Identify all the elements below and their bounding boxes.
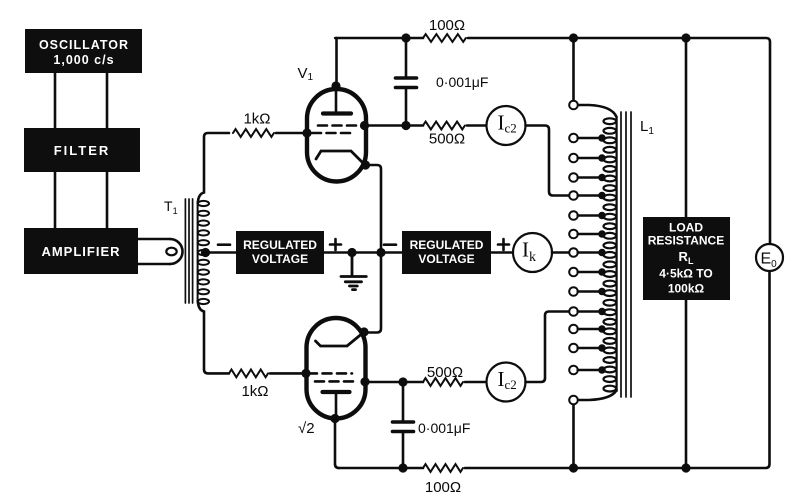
ground (341, 253, 366, 290)
svg-text:√2: √2 (298, 420, 315, 437)
resistor 1kΩ top (233, 129, 274, 137)
tube V2 cathode (316, 332, 365, 346)
tube V1 control grid dashed (312, 132, 354, 135)
capacitor 0.001uF top (396, 38, 417, 126)
tap L1 inner 9 (569, 287, 606, 296)
regulated voltage block 1 (236, 231, 324, 274)
svg-text:1kΩ: 1kΩ (243, 111, 270, 128)
transformer T1 secondary winding (198, 201, 209, 304)
resistor 1kΩ bottom (229, 370, 268, 378)
tap L1 top (to top rail) (569, 38, 616, 117)
junction screen wire / capacitor top (bottom half) (398, 377, 407, 386)
wire bottom rail (339, 271, 770, 468)
wire V1 anode up to top rail (335, 38, 338, 86)
tap L1 inner 1 (569, 134, 606, 143)
tube V1 envelope (307, 89, 366, 182)
svg-text:REGULATED: REGULATED (410, 238, 484, 252)
svg-text:FILTER: FILTER (54, 143, 111, 158)
tube V2 control grid dashed (308, 372, 352, 375)
regulated voltage block 2 (402, 231, 491, 274)
meter E0 (756, 244, 783, 271)
tube V2 screen grid dashed (315, 380, 358, 383)
wire oscillator to filter left (54, 73, 57, 128)
tap L1 inner 8 (569, 268, 606, 277)
tap L1 inner 4 (569, 191, 606, 200)
svg-text:100Ω: 100Ω (425, 479, 461, 496)
junction cathode line / mid wire (376, 248, 385, 257)
svg-text:AMPLIFIER: AMPLIFIER (41, 244, 120, 259)
svg-text:VOLTAGE: VOLTAGE (252, 252, 308, 266)
tube V2 anode (bottom plate) (323, 392, 350, 419)
junction bottom rail / L1 bottom tap (569, 463, 578, 472)
wire oscillator to filter right (106, 73, 109, 128)
wire T1 secondary bottom to 1k resistor (198, 301, 229, 373)
transformer T1 primary loop from amplifier (138, 239, 183, 264)
svg-text:T1: T1 (164, 198, 178, 216)
tube V2 envelope (307, 318, 366, 419)
capacitor 0.001uF bottom (393, 382, 414, 468)
tap L1 inner 10 (569, 307, 606, 316)
tap L1 inner 7 (569, 248, 606, 257)
junction V2 control-grid pin (301, 369, 310, 378)
junction top rail / load branch (681, 33, 690, 42)
junction V2 anode pin (330, 414, 339, 423)
wire filter to amplifier left (54, 172, 57, 228)
junction screen wire / capacitor bottom (401, 121, 410, 130)
wire top rail (335, 38, 770, 244)
tap L1 inner 13 (569, 366, 606, 375)
junction V1 cathode pin (361, 160, 370, 169)
resistor 100Ω top (423, 34, 466, 42)
junction top rail / capacitor-resistor node (401, 33, 410, 42)
wire V2 screen grid to 500 ohm resistor (365, 381, 423, 384)
meter Ik (513, 233, 552, 272)
junction V1 control-grid pin (302, 128, 311, 137)
wire 500 ohm to meter Ic2 bottom (465, 381, 487, 384)
filter block (24, 128, 140, 172)
tube V1 screen grid dashed (318, 124, 358, 127)
svg-text:L1: L1 (640, 118, 654, 137)
wire 500 ohm to meter Ic2 top (467, 124, 487, 127)
inductor L1 core (621, 112, 631, 397)
svg-text:500Ω: 500Ω (429, 131, 465, 148)
label minus regulated voltage 2 (384, 243, 396, 246)
svg-text:0·001μF: 0·001μF (418, 420, 470, 436)
wire V1 cathode to V2 cathode vertical (364, 165, 381, 333)
tap L1 inner 3 (569, 173, 606, 182)
svg-text:1kΩ: 1kΩ (241, 383, 268, 400)
wire top rail to load resistance (685, 38, 688, 217)
tap L1 inner 2 (569, 154, 606, 163)
junction ground node (347, 248, 356, 257)
junction T1 centre tap (201, 248, 210, 257)
wire V2 anode down to bottom rail (335, 419, 339, 469)
resistor 500Ω bottom (423, 378, 463, 386)
wire T1 secondary top to 1k resistor (198, 133, 229, 203)
wire V1 screen grid to 500 ohm resistor (365, 124, 424, 127)
load resistance block RL (643, 217, 730, 300)
wire filter to amplifier right (106, 172, 109, 228)
tap L1 inner 5 (569, 211, 606, 220)
wire meter Ic2 top to L1 tap 4 (526, 126, 569, 196)
junction V1 screen-grid pin (360, 121, 369, 130)
svg-text:OSCILLATOR: OSCILLATOR (39, 38, 129, 52)
label plus regulated voltage 2 (498, 239, 509, 250)
wire meter Ik to L1 centre tap (552, 251, 568, 254)
junction bottom rail / capacitor node (398, 463, 407, 472)
resistor 500Ω top (423, 122, 465, 130)
wire regulated voltage 1 to regulated voltage 2 (324, 251, 402, 254)
tap L1 inner 11 (569, 325, 606, 334)
wire T1 centre tap to regulated voltage 1 (206, 251, 237, 254)
svg-text:0·001μF: 0·001μF (436, 74, 488, 90)
svg-text:V1: V1 (298, 65, 314, 83)
junction top rail / L1 top tap (569, 33, 578, 42)
junction V2 screen-grid pin (360, 377, 369, 386)
wire load resistance to bottom rail (685, 300, 688, 468)
label plus regulated voltage 1 (330, 239, 341, 250)
transformer T1 core (185, 199, 192, 303)
wire regulated voltage 2 to meter Ik (491, 251, 513, 254)
svg-text:LOAD: LOAD (669, 221, 703, 235)
svg-text:RESISTANCE: RESISTANCE (648, 234, 724, 248)
inductor L1 winding (604, 117, 617, 392)
junction V1 top pin (331, 81, 340, 90)
resistor 100Ω bottom (423, 464, 463, 472)
svg-text:100kΩ: 100kΩ (668, 282, 705, 296)
label minus regulated voltage 1 (218, 243, 230, 246)
wire 1k resistor to V1 control grid (276, 132, 306, 135)
svg-text:100Ω: 100Ω (429, 17, 465, 34)
meter Ic2 bottom (487, 363, 526, 402)
svg-text:1,000 c/s: 1,000 c/s (53, 53, 114, 67)
svg-text:REGULATED: REGULATED (243, 238, 317, 252)
oscillator block OSCILLATOR 1,000 c/s (25, 29, 142, 73)
junction V2 cathode pin (359, 327, 368, 336)
tube V1 anode (top plate) (323, 87, 351, 114)
tube V1 cathode (316, 151, 365, 165)
meter Ic2 top (487, 106, 526, 145)
amplifier block (24, 228, 138, 274)
wire 1k resistor to V2 control grid (270, 372, 305, 375)
svg-text:500Ω: 500Ω (427, 364, 463, 381)
tap L1 bottom (to bottom rail) (569, 390, 616, 468)
junction bottom rail / load branch (681, 463, 690, 472)
wire meter Ic2 bottom to L1 tap 10 (526, 312, 569, 383)
tap L1 inner 12 (569, 344, 606, 353)
svg-text:VOLTAGE: VOLTAGE (418, 252, 474, 266)
svg-text:4·5kΩ TO: 4·5kΩ TO (659, 267, 712, 281)
tap L1 inner 6 (569, 230, 606, 239)
